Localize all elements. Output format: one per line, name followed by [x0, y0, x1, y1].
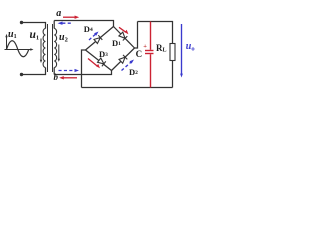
transformer secondary winding [54, 29, 56, 68]
label C [136, 49, 143, 59]
wire top rail to load [138, 22, 173, 44]
u1 arrow (primary voltage) [40, 39, 42, 61]
blue dashed arrow along D2 [122, 60, 135, 71]
wire secondary top lead to node a [53, 21, 55, 29]
uo arrow (blue output voltage) [180, 24, 183, 78]
wire top node a to bridge top vertex [54, 21, 113, 27]
transformer primary winding [43, 29, 45, 68]
wire primary bottom lead [22, 68, 46, 75]
diode D4 symbol [94, 35, 102, 43]
bridge edge D1 (top-right) [114, 27, 135, 49]
red arrow at node a (positive half current) [63, 16, 79, 19]
label node b [54, 72, 59, 82]
label D4 [84, 24, 93, 34]
resistor RL box [170, 44, 175, 61]
sine source waveform u1 [7, 41, 29, 57]
u2 arrow (secondary voltage) [58, 45, 60, 60]
label u1 at primary [30, 29, 40, 42]
label D2 [129, 67, 138, 77]
label + capacitor polarity [143, 43, 147, 50]
wire secondary bottom lead to node b [53, 68, 55, 75]
blue dashed arrow at node b [59, 69, 80, 72]
sine source axes [5, 36, 32, 50]
diode D1 symbol [119, 32, 127, 40]
bridge edge D2 (bottom-right) [112, 48, 135, 71]
wire left vertex down to bottom rail [82, 50, 86, 88]
transformer core [48, 24, 53, 72]
red arrow at node b [59, 76, 77, 79]
blue dashed arrow along D4 [89, 32, 99, 41]
label node a [56, 8, 61, 19]
wire primary top lead [22, 23, 46, 29]
label D3 [99, 49, 108, 59]
label uo (blue) [186, 41, 195, 53]
red arrow along D3 [88, 59, 100, 69]
diode D3 symbol [98, 58, 106, 66]
diode D2 symbol [119, 55, 127, 63]
wire bottom node b to bridge bottom vertex [54, 71, 111, 75]
bridge edge D4 (left-top) [86, 27, 114, 51]
terminal dot bottom-left [20, 73, 23, 76]
label RL [156, 43, 167, 54]
wire bottom rail [82, 87, 173, 89]
label u1 at sine source [8, 29, 17, 40]
wire right vertex riser [135, 22, 138, 49]
bridge edge D3 (left-bottom) [86, 50, 112, 71]
label u2 at secondary [59, 32, 68, 44]
blue dashed arrow at node a (negative half current) [58, 22, 73, 25]
label D1 [112, 38, 121, 48]
wire load bottom lead [172, 61, 174, 88]
terminal dot top-left [20, 21, 23, 24]
capacitor C (red) [145, 22, 154, 88]
red arrow along D1 [119, 27, 128, 34]
